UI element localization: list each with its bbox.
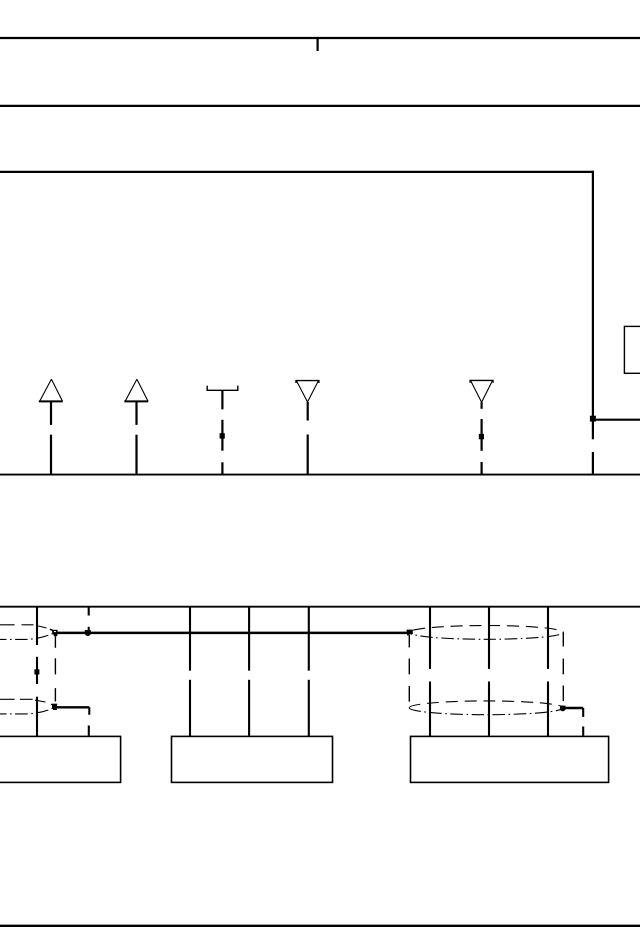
- connector box U1 (cut off at right): [624, 326, 640, 373]
- wire W5: [308, 607, 310, 737]
- cylinder side dashes right: [562, 633, 564, 702]
- shield terminal P2: [51, 704, 57, 710]
- arrow symbol A4 (triangle down): [296, 381, 319, 475]
- cable shield S2 arcs (cut at left): [0, 699, 54, 714]
- shield node dot (cylinder right): [560, 706, 566, 712]
- shield drain wire (thick horizontal): [56, 632, 409, 635]
- wire W1 left vertical: [34, 607, 39, 737]
- junction blob on shield wire: [85, 630, 91, 636]
- antenna symbol A1 (triangle up): [39, 379, 63, 474]
- bus rule mid: [0, 474, 640, 476]
- drain L-wire to left box: [56, 707, 89, 735]
- node junction J6: [590, 416, 596, 422]
- cable shield cylinder bottom ellipse: [409, 701, 563, 715]
- wire W4: [248, 607, 250, 737]
- wire top horizontal: [0, 171, 594, 173]
- terminal symbol T3 (bracket): [207, 386, 238, 475]
- wire W6: [429, 607, 431, 737]
- cylinder side dashes left: [408, 635, 410, 702]
- device box B3: [411, 736, 609, 782]
- wire W2 dashed: [88, 607, 90, 630]
- cable shield cylinder top ellipse: [409, 626, 563, 640]
- wire W8: [547, 607, 549, 737]
- tick on rule 1: [317, 38, 319, 51]
- bus rule bottom section: [0, 606, 640, 608]
- rule 2: [0, 105, 640, 107]
- antenna symbol A2 (triangle up): [124, 379, 148, 474]
- wire right vertical: [592, 171, 594, 419]
- wire W7: [488, 607, 490, 737]
- arrow symbol A5 (triangle down): [470, 380, 493, 474]
- dashed shield link wire: [54, 636, 56, 701]
- device box B2: [172, 736, 333, 782]
- shield terminal P1: [50, 629, 58, 636]
- device box B1 (cut at left): [0, 736, 121, 782]
- wire W3: [189, 607, 191, 737]
- shield node square (cylinder left): [407, 630, 413, 636]
- wire to right edge: [593, 419, 640, 421]
- bottom border rule: [0, 925, 640, 927]
- top border rule 1: [0, 37, 640, 39]
- dashed wire below junction: [592, 422, 594, 440]
- cable shield S1 arcs (cut at left): [0, 625, 52, 640]
- drain L-wire to right box: [563, 708, 583, 736]
